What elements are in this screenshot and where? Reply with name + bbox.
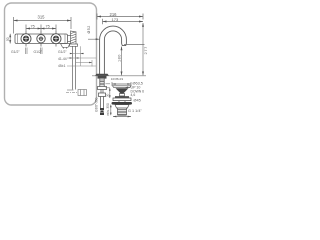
- svg-text:277: 277: [143, 46, 148, 55]
- svg-text:Ø52: Ø52: [87, 25, 91, 33]
- svg-text:50: 50: [6, 37, 10, 41]
- svg-text:315: 315: [38, 15, 46, 20]
- svg-text:180: 180: [117, 54, 121, 62]
- svg-text:45±1: 45±1: [58, 64, 66, 68]
- svg-text:75: 75: [31, 25, 35, 29]
- svg-text:G1/2": G1/2": [11, 50, 20, 54]
- svg-text:41-44: 41-44: [58, 57, 67, 61]
- svg-text:10/35x19: 10/35x19: [111, 77, 124, 81]
- svg-text:G1/2": G1/2": [34, 50, 43, 54]
- svg-text:Ø45: Ø45: [134, 98, 141, 102]
- svg-text:G3/8"-350: G3/8"-350: [95, 97, 99, 112]
- svg-text:30: 30: [105, 93, 109, 97]
- svg-text:G1/2": G1/2": [58, 50, 67, 54]
- svg-text:min. 350: min. 350: [106, 103, 110, 115]
- svg-text:173: 173: [112, 17, 119, 22]
- svg-text:75: 75: [46, 25, 50, 29]
- svg-text:4,6: 4,6: [131, 93, 136, 97]
- svg-text:G 1 1/4": G 1 1/4": [128, 109, 142, 113]
